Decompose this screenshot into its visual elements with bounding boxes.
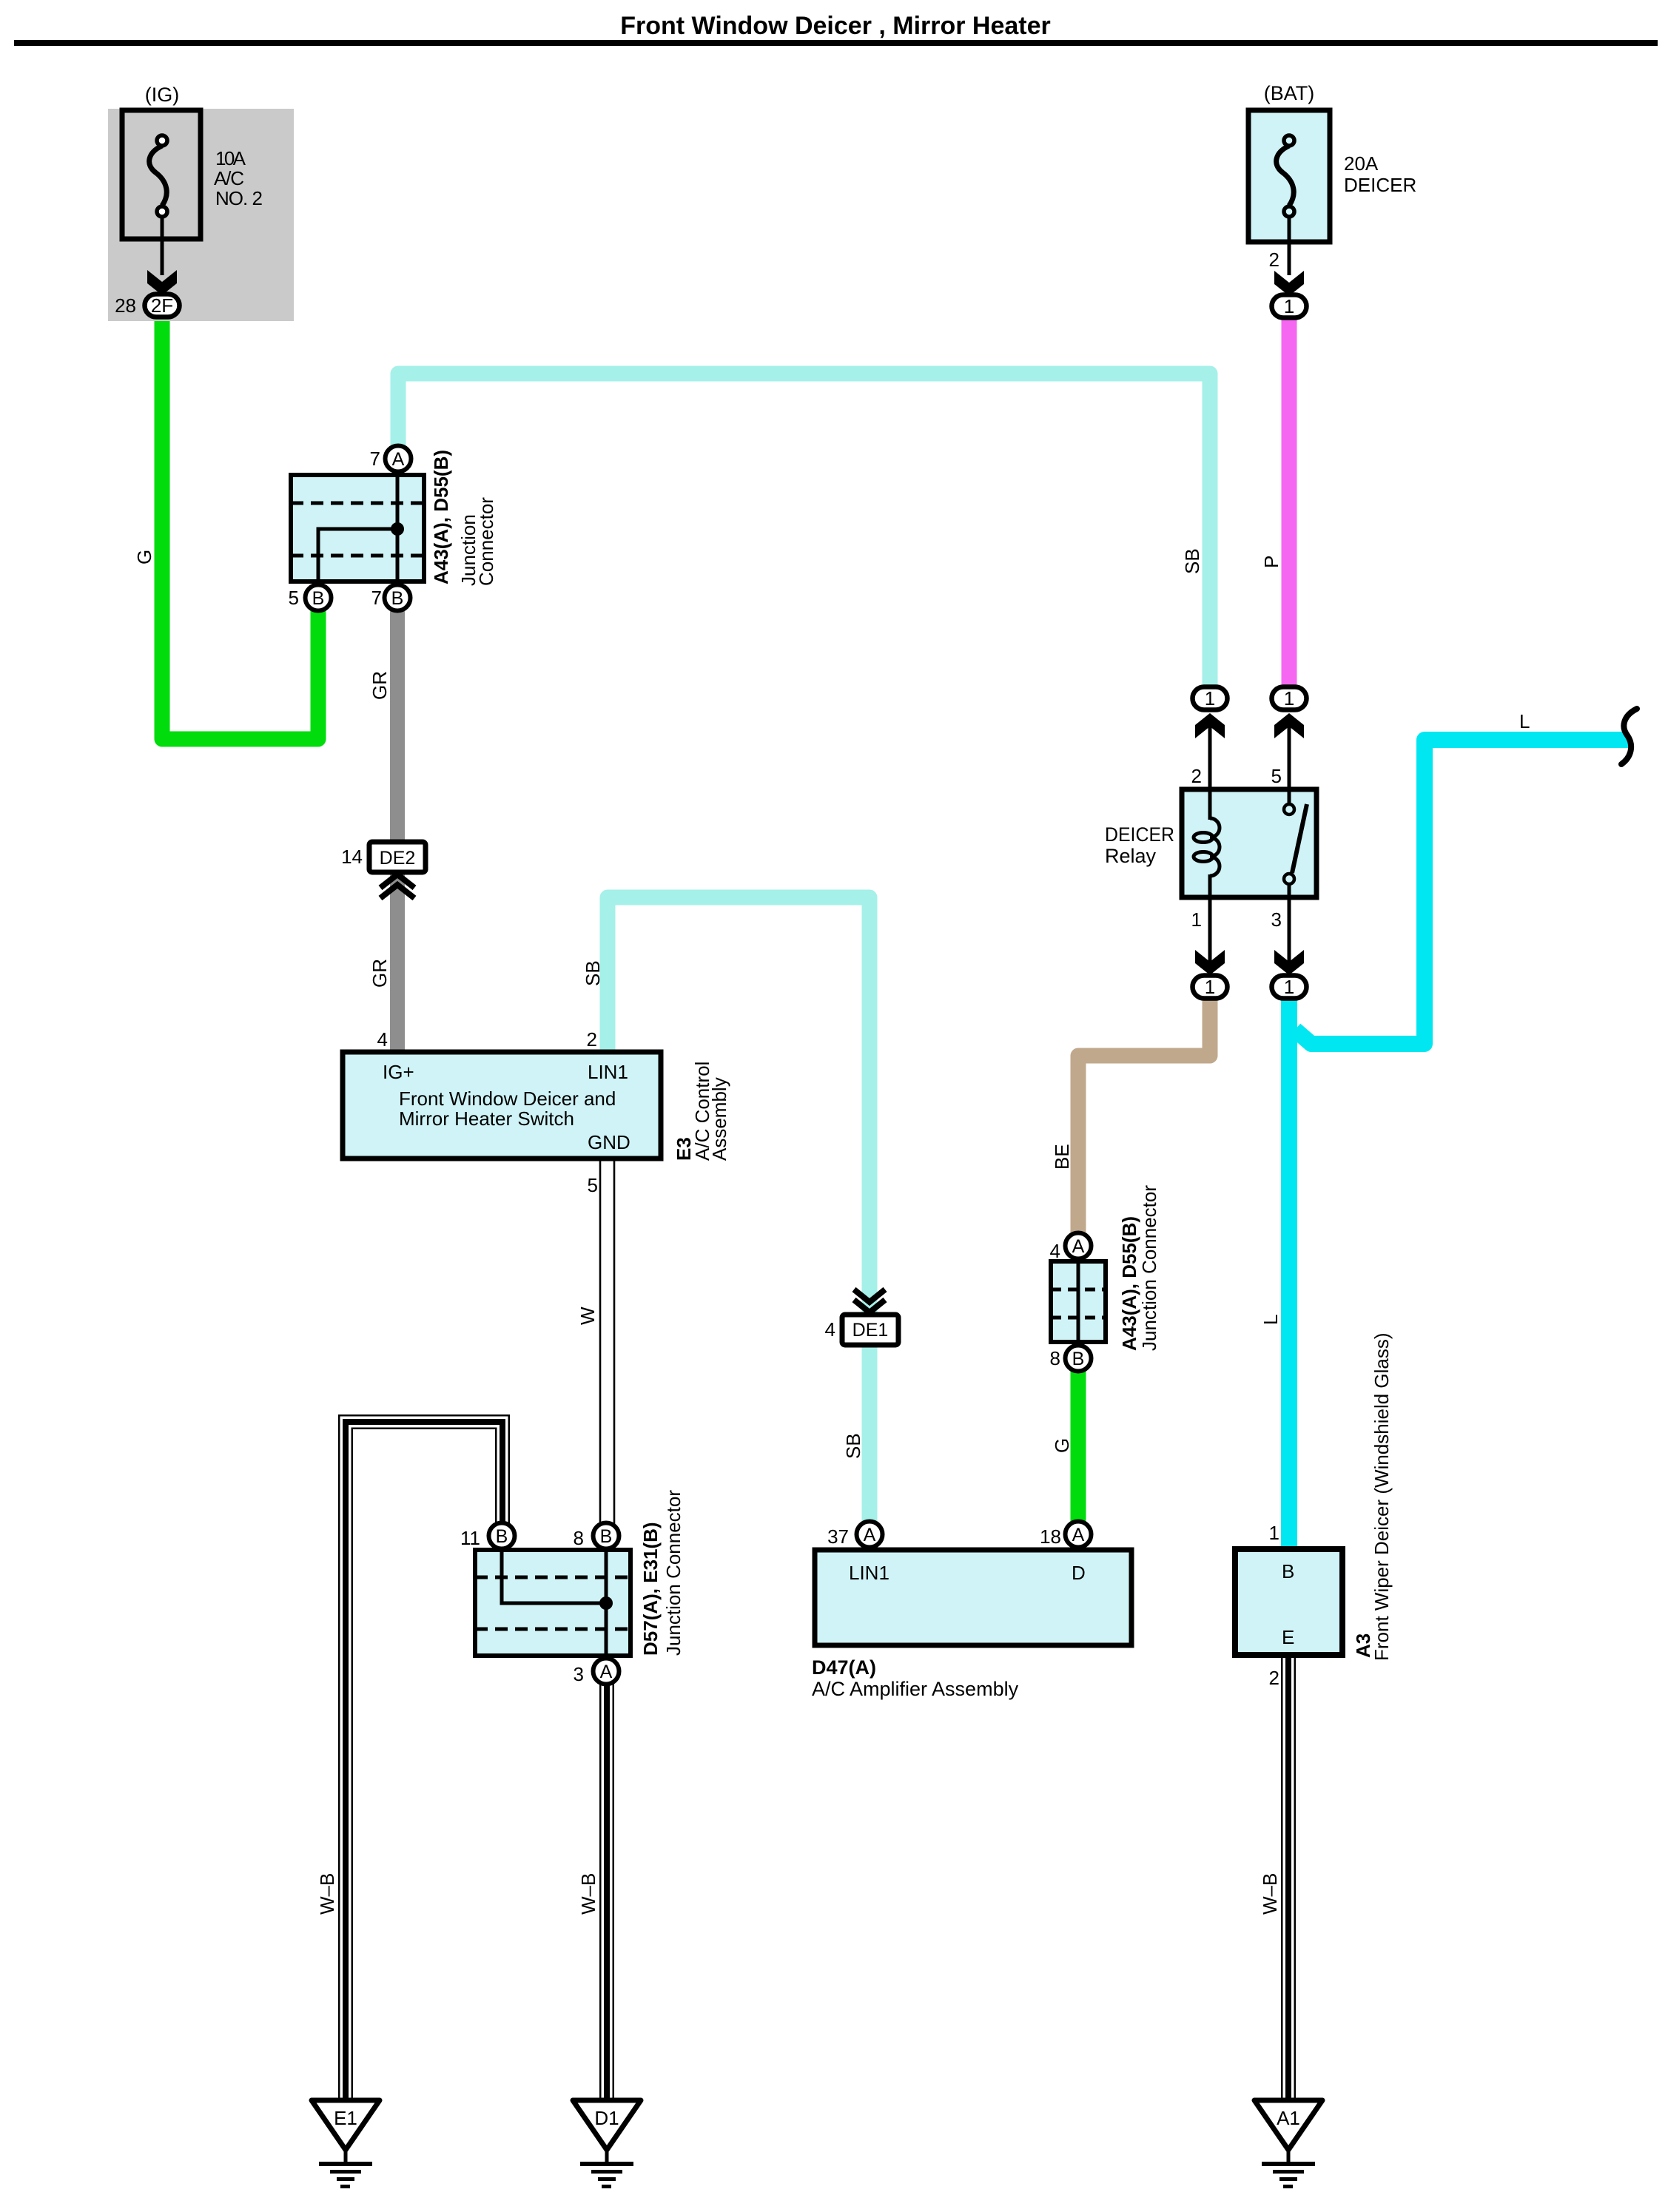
- pin label 28: [115, 294, 136, 317]
- svg-text:W–B: W–B: [316, 1873, 338, 1915]
- svg-text:8: 8: [574, 1527, 584, 1549]
- svg-text:DE1: DE1: [853, 1320, 889, 1341]
- svg-text:A1: A1: [1277, 2107, 1300, 2129]
- pin circle A18: [1040, 1522, 1091, 1548]
- wire L cyan from relay pin3 oval to front wiper deicer B: [1281, 984, 1297, 1549]
- svg-text:L: L: [1519, 710, 1530, 732]
- svg-text:A/C Amplifier Assembly: A/C Amplifier Assembly: [812, 1678, 1019, 1700]
- wire label BE: [1051, 1144, 1073, 1170]
- svg-text:A43(A), D55(B): A43(A), D55(B): [430, 450, 452, 584]
- amplifier box D47(A): [812, 1550, 1131, 1700]
- switch pin labels: [377, 1028, 598, 1196]
- gray panel behind IG fuse: [108, 109, 294, 321]
- svg-text:Connector: Connector: [475, 497, 497, 586]
- svg-text:B: B: [600, 1526, 613, 1547]
- svg-text:4: 4: [825, 1318, 835, 1341]
- svg-text:GR: GR: [369, 959, 391, 988]
- D57 junction label: [639, 1490, 685, 1656]
- wire GR gray from junction B7 through DE2 to switch pin4: [390, 596, 405, 1053]
- svg-text:D57(A), E31(B): D57(A), E31(B): [639, 1522, 662, 1656]
- pin circle A3: [574, 1659, 619, 1686]
- svg-text:GR: GR: [369, 671, 391, 700]
- wire label W: [576, 1306, 599, 1325]
- relay ovals top: [1193, 687, 1307, 710]
- wire label SB at DE1 run: [842, 1433, 864, 1459]
- junction connector upper label: [430, 450, 497, 586]
- svg-text:1: 1: [1284, 295, 1294, 317]
- svg-text:1: 1: [1191, 908, 1202, 931]
- wire L cyan branch from off-page connector to vertical: [1295, 740, 1628, 1044]
- svg-text:B: B: [391, 588, 404, 609]
- svg-text:G: G: [1051, 1438, 1073, 1453]
- wire P pink from BAT fuse oval to relay pin5 oval: [1282, 318, 1297, 695]
- svg-text:E: E: [1282, 1626, 1294, 1648]
- svg-text:W–B: W–B: [1259, 1873, 1281, 1915]
- relay pin lines top with up arrows: [1191, 713, 1225, 789]
- svg-text:7: 7: [370, 448, 380, 470]
- svg-text:Junction Connector: Junction Connector: [1138, 1185, 1160, 1351]
- arrow into 2F: [147, 270, 177, 295]
- wire label SB at switch pin2: [582, 960, 604, 986]
- fuse 20A DEICER (BAT): [1248, 82, 1416, 275]
- svg-text:A43(A), D55(B): A43(A), D55(B): [1118, 1216, 1140, 1351]
- svg-text:Front Window Deicer , Mirror H: Front Window Deicer , Mirror Heater: [620, 12, 1051, 40]
- svg-text:Junction Connector: Junction Connector: [662, 1490, 685, 1656]
- wire G green from 2F fuse to junction connector B5: [162, 318, 318, 739]
- svg-text:37: 37: [827, 1525, 849, 1548]
- svg-text:LIN1: LIN1: [849, 1562, 890, 1584]
- svg-text:1: 1: [1284, 687, 1294, 709]
- relay pin lines bottom with down arrows: [1191, 897, 1225, 975]
- svg-text:DE2: DE2: [380, 848, 416, 869]
- ground D1: [573, 2100, 641, 2188]
- svg-text:B: B: [1282, 1560, 1294, 1582]
- pin circle A37: [827, 1522, 882, 1548]
- wire label P: [1260, 556, 1282, 568]
- svg-text:Front Wiper Deicer (Windshield: Front Wiper Deicer (Windshield Glass): [1371, 1332, 1393, 1661]
- wire SB pale from switch LIN1 pin2 through DE1 to amplifier pin37: [608, 897, 870, 1534]
- pin label 2 below BAT fuse: [1269, 249, 1279, 271]
- svg-text:DEICER: DEICER: [1344, 174, 1416, 196]
- svg-text:4: 4: [377, 1028, 388, 1051]
- svg-text:2: 2: [587, 1028, 597, 1051]
- junction connector A43(A) D55(B) upper: [291, 475, 424, 581]
- svg-text:IG+: IG+: [383, 1061, 414, 1083]
- relay DEICER box: [1105, 789, 1316, 897]
- svg-text:A: A: [392, 449, 405, 470]
- svg-text:Relay: Relay: [1105, 845, 1157, 867]
- svg-text:P: P: [1260, 556, 1282, 568]
- connector oval 2F: [145, 294, 180, 317]
- off-page connector squiggle for L wire: [1621, 709, 1637, 764]
- label L horizontal: [1519, 710, 1530, 732]
- svg-text:A: A: [1072, 1525, 1085, 1545]
- svg-text:SB: SB: [842, 1433, 864, 1459]
- svg-text:1: 1: [1205, 976, 1215, 998]
- switch box E3 A/C control assembly: [343, 1052, 661, 1159]
- title: [14, 12, 1658, 46]
- svg-text:3: 3: [574, 1663, 584, 1685]
- wire G green from junction B8 to amplifier pin18: [1071, 1357, 1086, 1534]
- svg-text:SB: SB: [582, 960, 604, 986]
- wire SB pale from junction A7 to relay pin2 oval: [398, 374, 1210, 695]
- connector DE1: [825, 1289, 898, 1345]
- svg-text:A: A: [1072, 1236, 1085, 1257]
- wire W-B from front wiper deicer E to ground A1: [1281, 1655, 1296, 2100]
- arrow into oval 1 (BAT): [1274, 271, 1304, 296]
- wire label G: [133, 550, 155, 564]
- svg-text:20A: 20A: [1344, 152, 1379, 175]
- svg-text:5: 5: [588, 1174, 598, 1196]
- svg-text:2: 2: [1269, 249, 1279, 271]
- svg-text:DEICER: DEICER: [1105, 823, 1174, 846]
- svg-text:A: A: [600, 1662, 613, 1682]
- A3 label: [1352, 1332, 1393, 1661]
- svg-text:(IG): (IG): [145, 84, 180, 106]
- wire W-B from junction A3 to ground D1: [599, 1671, 614, 2100]
- svg-text:2F: 2F: [151, 294, 173, 317]
- svg-text:5: 5: [289, 587, 299, 609]
- svg-text:W–B: W–B: [577, 1873, 599, 1915]
- svg-text:18: 18: [1040, 1525, 1061, 1548]
- svg-text:5: 5: [1271, 765, 1282, 787]
- junction connector D57(A) E31(B): [475, 1550, 630, 1656]
- connector DE2: [341, 842, 426, 898]
- svg-text:3: 3: [1271, 908, 1282, 931]
- svg-text:D1: D1: [594, 2107, 619, 2129]
- svg-text:14: 14: [341, 846, 363, 868]
- svg-text:Mirror Heater Switch: Mirror Heater Switch: [399, 1107, 574, 1130]
- wire label G lower: [1051, 1438, 1073, 1453]
- pin circle B7: [371, 585, 411, 611]
- svg-text:D: D: [1072, 1562, 1086, 1584]
- svg-text:11: 11: [460, 1527, 480, 1549]
- svg-text:Front Window Deicer and: Front Window Deicer and: [399, 1088, 616, 1110]
- wire label GR lower: [369, 959, 391, 988]
- svg-text:2: 2: [1269, 1667, 1279, 1689]
- svg-text:1: 1: [1284, 976, 1294, 998]
- front wiper deicer box A3: [1235, 1522, 1342, 1689]
- svg-text:SB: SB: [1181, 548, 1203, 574]
- wire label GR upper: [369, 671, 391, 700]
- svg-text:28: 28: [115, 294, 136, 317]
- fuse 10A A/C NO.2 (IG): [122, 84, 263, 275]
- svg-text:A: A: [864, 1525, 876, 1545]
- wire label L vertical: [1260, 1315, 1282, 1325]
- svg-text:E1: E1: [334, 2107, 357, 2129]
- ground E1: [312, 2100, 380, 2188]
- svg-text:8: 8: [1050, 1347, 1060, 1369]
- wire BE tan from relay pin1 oval to junction A4: [1078, 984, 1210, 1247]
- svg-text:GND: GND: [588, 1131, 630, 1153]
- svg-text:1: 1: [1269, 1522, 1279, 1544]
- ground A1: [1254, 2100, 1322, 2188]
- pin circle A7: [370, 446, 411, 472]
- svg-text:A/C: A/C: [214, 167, 244, 189]
- pin circle B8: [574, 1523, 619, 1550]
- connector oval 1 below BAT fuse: [1272, 295, 1307, 318]
- svg-text:B: B: [312, 588, 325, 609]
- svg-text:1: 1: [1205, 687, 1215, 709]
- svg-text:(BAT): (BAT): [1264, 82, 1315, 104]
- wire W-B from ground E1 up and over to junction B11: [346, 1422, 502, 2103]
- relay coil: [1194, 789, 1220, 897]
- svg-text:G: G: [133, 550, 155, 564]
- wire labels W-B: [316, 1873, 338, 1915]
- svg-text:7: 7: [371, 587, 382, 609]
- svg-text:B: B: [1072, 1349, 1085, 1369]
- svg-text:NO. 2: NO. 2: [215, 187, 263, 209]
- junction connector A43(A) D55(B) lower: [1050, 1233, 1106, 1372]
- E3 label: [673, 1062, 730, 1161]
- relay switch contact: [1284, 789, 1307, 897]
- svg-text:Assembly: Assembly: [708, 1077, 730, 1161]
- svg-text:4: 4: [1050, 1240, 1060, 1262]
- svg-text:W: W: [576, 1306, 599, 1325]
- junction connector lower label: [1118, 1185, 1160, 1351]
- svg-text:L: L: [1260, 1315, 1282, 1325]
- relay ovals bottom: [1193, 976, 1307, 999]
- svg-text:BE: BE: [1051, 1144, 1073, 1170]
- wire label SB top run: [1181, 548, 1203, 574]
- svg-text:D47(A): D47(A): [812, 1656, 876, 1679]
- wire W white from switch GND pin5 to junction B8: [600, 1159, 614, 1536]
- pin circle B11: [460, 1523, 515, 1550]
- svg-text:LIN1: LIN1: [588, 1061, 628, 1083]
- svg-text:B: B: [496, 1526, 508, 1547]
- svg-text:2: 2: [1191, 765, 1202, 787]
- svg-text:10A: 10A: [215, 147, 246, 169]
- pin circle B5: [289, 585, 332, 611]
